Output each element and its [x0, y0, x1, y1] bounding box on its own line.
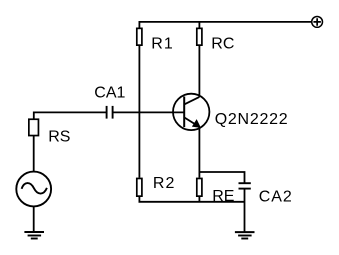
capacitor CA1: [107, 106, 113, 119]
transistor Q1 Q2N2222: [173, 94, 209, 130]
resistor R2: [137, 178, 142, 196]
wire RS to source: [33, 136, 35, 172]
wire CA2 to ground: [244, 189, 246, 233]
wire top rail: [139, 22, 311, 28]
svg-text:R1: R1: [151, 35, 173, 52]
svg-text:RE: RE: [212, 188, 234, 205]
wire RC top lead: [198, 22, 200, 28]
svg-text:CA2: CA2: [259, 189, 293, 206]
wire CA1 to base: [113, 111, 185, 113]
wire emitter to CA2: [199, 172, 244, 183]
ground right: [235, 232, 255, 238]
ground left: [24, 232, 44, 238]
resistor R1: [137, 28, 142, 45]
resistor RC: [197, 28, 202, 45]
wire R2 bottom rail: [139, 197, 244, 202]
wire RE bottom lead: [198, 197, 200, 202]
wire R1 bottom to R2 top: [138, 46, 140, 178]
wire collector: [198, 46, 200, 97]
resistor RE: [197, 178, 202, 196]
wire source top to CA1: [34, 112, 107, 119]
capacitor CA2: [239, 183, 251, 188]
svg-text:R2: R2: [153, 175, 175, 192]
resistor RS: [29, 119, 39, 135]
svg-text:Q2N2222: Q2N2222: [215, 111, 289, 128]
power terminal: [312, 17, 323, 28]
AC source: [16, 172, 51, 207]
svg-text:RC: RC: [211, 35, 234, 52]
svg-text:RS: RS: [48, 128, 70, 145]
wire source to ground: [33, 206, 35, 232]
wire emitter: [198, 127, 200, 178]
svg-text:CA1: CA1: [94, 84, 125, 101]
